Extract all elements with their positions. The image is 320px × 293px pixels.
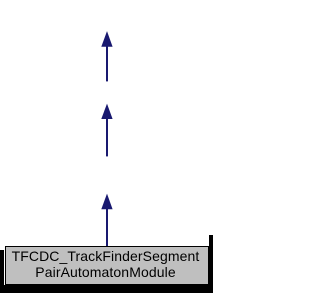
arrow 1 head: [101, 31, 112, 47]
node label (2 lines): [0, 249, 212, 280]
arrow 3 head: [101, 194, 112, 210]
arrow 2 head: [101, 104, 112, 119]
black frame: left strip: [0, 250, 4, 293]
arrow 1 shaft: [106, 46, 108, 82]
arrow 3 shaft: [106, 208, 108, 246]
inheritance arrows (midnightblue, pointing up): [0, 0, 213, 293]
black frame: right strip: [209, 235, 213, 293]
node box: TFCDC_TrackFinderSegmentPairAutomatonModule: [5, 246, 209, 285]
arrow 2 shaft: [106, 118, 108, 156]
black frame: bottom strip: [0, 285, 213, 293]
